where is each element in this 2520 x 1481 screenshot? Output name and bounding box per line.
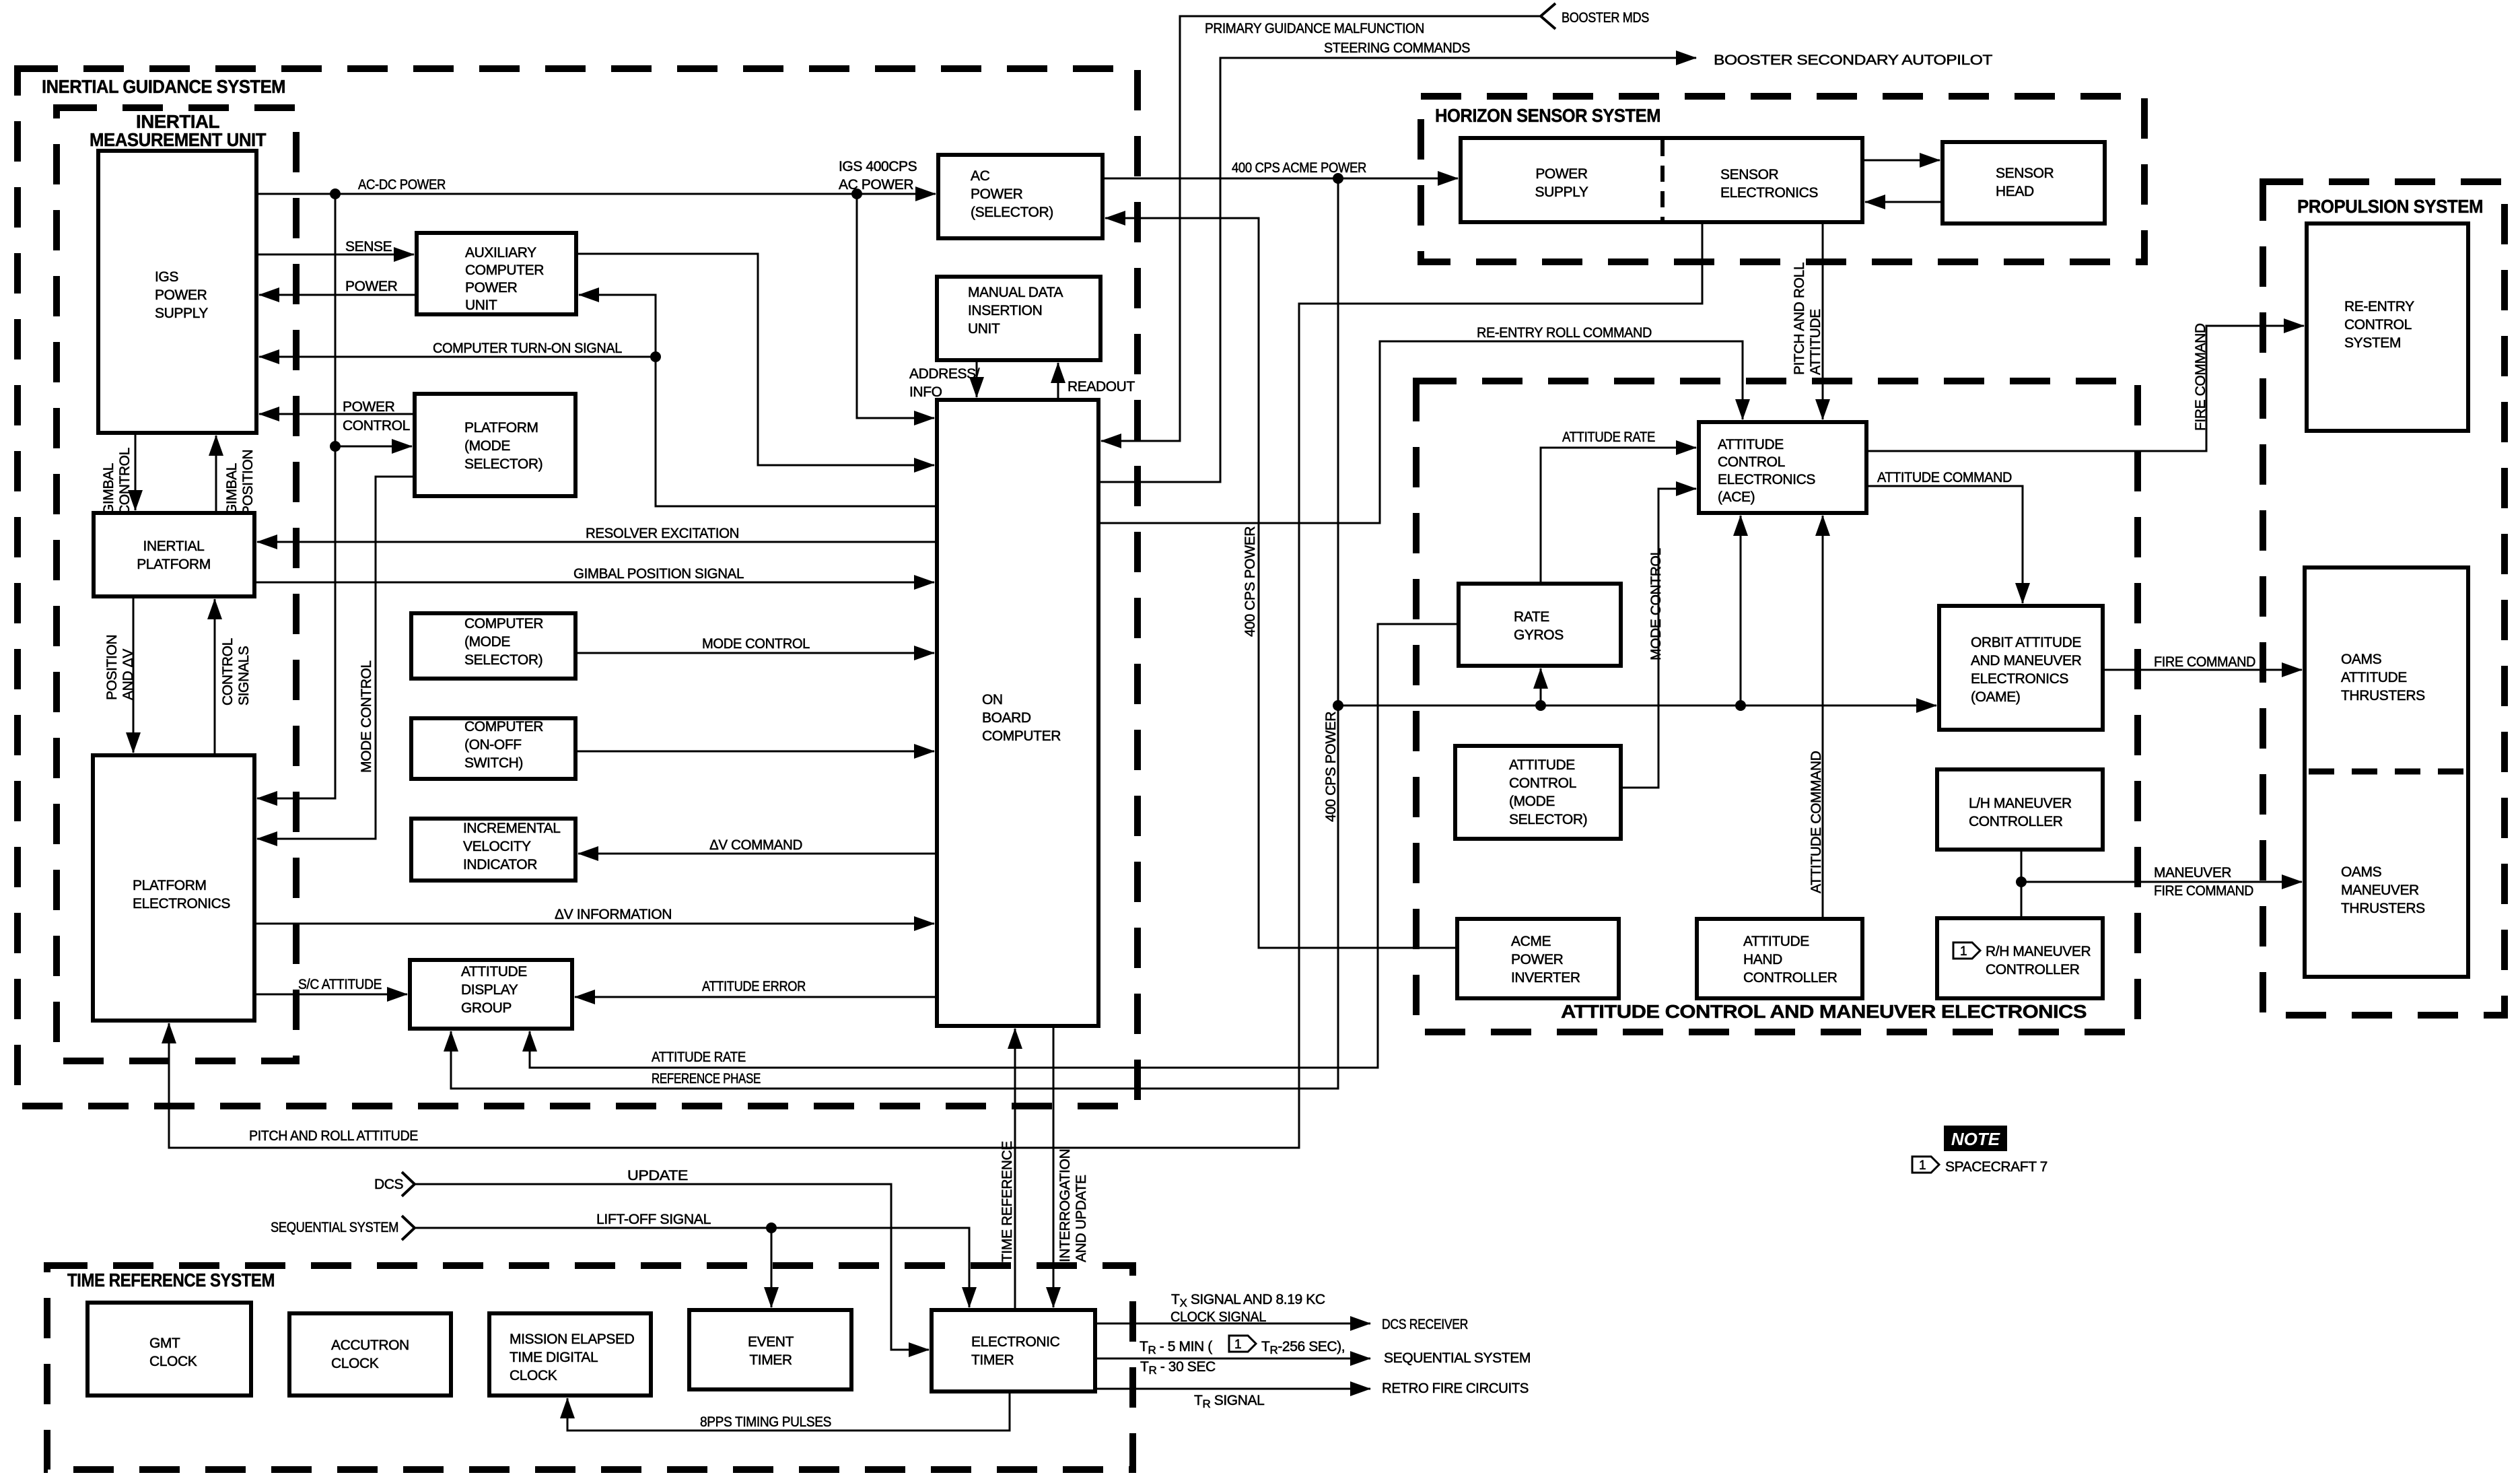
- svg-text:EVENT: EVENT: [748, 1334, 794, 1350]
- svg-text:DCS RECEIVER: DCS RECEIVER: [1382, 1317, 1468, 1332]
- wire: READOUT (OBC up to MDIU): [1057, 363, 1059, 400]
- svg-text:PITCH AND ROLL: PITCH AND ROLL: [1792, 263, 1807, 375]
- wire: MANEUVER FIRE COMMAND (to OAMS MANEUVER THRUSTERS): [2021, 881, 2302, 883]
- svg-text:SIGNALS: SIGNALS: [236, 646, 252, 705]
- wire: ATTITUDE ERROR (OBC to ADG): [575, 996, 937, 998]
- wire: bus up into ACE: [1740, 516, 1742, 705]
- svg-text:ACME: ACME: [1511, 934, 1551, 949]
- svg-text:ELECTRONICS: ELECTRONICS: [1720, 185, 1818, 201]
- svg-text:1: 1: [1919, 1159, 1926, 1173]
- wire: ATTITUDE COMMAND (ACE to OAME): [1866, 486, 2023, 603]
- box: ATTITUDE CONTROL ELECTRONICS (ACE): [1699, 422, 1866, 513]
- svg-text:FIRE COMMAND: FIRE COMMAND: [2154, 654, 2255, 670]
- svg-text:PLATFORM: PLATFORM: [464, 420, 538, 436]
- wire: 8PPS TIMING PULSES (ET to MISSION ELAPSED TIME CLOCK): [567, 1391, 1010, 1431]
- box: COMPUTER (ON-OFF SWITCH): [411, 718, 575, 779]
- svg-text:SENSOR: SENSOR: [1996, 166, 2054, 181]
- svg-text:8PPS TIMING PULSES: 8PPS TIMING PULSES: [700, 1414, 831, 1430]
- box: ORBIT ATTITUDE AND MANEUVER ELECTRONICS (OAME): [1939, 606, 2103, 730]
- svg-text:SEQUENTIAL SYSTEM: SEQUENTIAL SYSTEM: [271, 1220, 398, 1235]
- box: IGS POWER SUPPLY: [98, 151, 256, 433]
- svg-text:ATTITUDE: ATTITUDE: [461, 964, 527, 979]
- svg-text:UNIT: UNIT: [968, 321, 1000, 337]
- box: R/H MANEUVER CONTROLLER: [1937, 918, 2103, 998]
- junction bus at ACE: [1735, 700, 1746, 711]
- svg-text:POWER: POWER: [155, 287, 207, 303]
- box: PLATFORM (MODE SELECTOR): [415, 394, 575, 496]
- svg-text:SWITCH): SWITCH): [464, 755, 523, 771]
- wire: PITCH AND ROLL ATTITUDE (SENSOR ELECTRONICS down to PLATFORM ELECTRONICS): [169, 222, 1702, 1148]
- svg-text:THRUSTERS: THRUSTERS: [2341, 688, 2425, 703]
- dashed container: HORIZON SENSOR SYSTEM: [1421, 96, 2144, 262]
- svg-text:INTERROGATION: INTERROGATION: [1057, 1149, 1073, 1262]
- dashed container: TIME REFERENCE SYSTEM: [47, 1266, 1133, 1470]
- svg-text:AC POWER: AC POWER: [839, 177, 913, 193]
- svg-text:ATTITUDE: ATTITUDE: [1808, 309, 1823, 375]
- note: NOTE box: [1944, 1126, 2007, 1151]
- box: RE-ENTRY CONTROL SYSTEM: [2307, 223, 2468, 431]
- box: ACCUTRON CLOCK: [289, 1313, 451, 1396]
- svg-text:CONTROL: CONTROL: [117, 448, 133, 515]
- svg-text:READOUT: READOUT: [1067, 379, 1135, 394]
- junction AC-DC branch: [330, 441, 341, 452]
- svg-text:POWER: POWER: [971, 186, 1023, 202]
- wire: RESOLVER EXCITATION (OBC to IP): [257, 541, 937, 543]
- svg-text:ATTITUDE RATE: ATTITUDE RATE: [652, 1049, 746, 1065]
- svg-text:AC-DC POWER: AC-DC POWER: [358, 177, 446, 193]
- svg-text:1: 1: [1234, 1338, 1241, 1352]
- wire: ADDRESS/INFO (MDIU down to OBC): [976, 360, 978, 397]
- svg-text:INVERTER: INVERTER: [1511, 970, 1580, 986]
- svg-text:ATTITUDE ERROR: ATTITUDE ERROR: [702, 979, 806, 994]
- svg-text:RESOLVER EXCITATION: RESOLVER EXCITATION: [586, 526, 739, 541]
- svg-text:ACCUTRON: ACCUTRON: [331, 1338, 409, 1353]
- svg-text:HORIZON SENSOR SYSTEM: HORIZON SENSOR SYSTEM: [1435, 105, 1660, 126]
- box: EVENT TIMER: [689, 1310, 851, 1389]
- svg-text:STEERING COMMANDS: STEERING COMMANDS: [1324, 40, 1470, 56]
- wire: AC-DC POWER (IGS PS to AC POWER SELECTOR): [256, 193, 936, 195]
- svg-text:THRUSTERS: THRUSTERS: [2341, 901, 2425, 916]
- box: GMT CLOCK: [87, 1303, 251, 1396]
- dashed container: INERTIAL GUIDANCE SYSTEM: [17, 69, 1137, 1106]
- box: L/H MANEUVER CONTROLLER: [1937, 769, 2103, 850]
- svg-text:MANEUVER: MANEUVER: [2341, 883, 2419, 898]
- wire: PRIMARY GUIDANCE MALFUNCTION (BOOSTER MDS to OBC): [1101, 16, 1541, 441]
- svg-text:POSITION: POSITION: [240, 450, 256, 515]
- svg-text:INDICATOR: INDICATOR: [463, 857, 537, 872]
- svg-text:SEQUENTIAL SYSTEM: SEQUENTIAL SYSTEM: [1384, 1350, 1531, 1366]
- svg-text:TIME REFERENCE SYSTEM: TIME REFERENCE SYSTEM: [67, 1270, 275, 1290]
- wire: SENSE (IGS PS to AUX): [256, 254, 414, 256]
- svg-text:GIMBAL: GIMBAL: [101, 463, 116, 515]
- svg-text:AND MANEUVER: AND MANEUVER: [1971, 653, 2082, 668]
- svg-text:BOOSTER MDS: BOOSTER MDS: [1562, 10, 1649, 26]
- wire: IGS 400CPS AC POWER drop to ON BOARD COMPUTER: [857, 194, 934, 418]
- svg-text:MANUAL DATA: MANUAL DATA: [968, 285, 1063, 300]
- svg-text:MANEUVER: MANEUVER: [2154, 865, 2231, 881]
- box: AC POWER (SELECTOR): [938, 155, 1102, 238]
- svg-text:BOARD: BOARD: [982, 710, 1031, 726]
- svg-text:CONTROL: CONTROL: [220, 638, 236, 705]
- svg-text:VELOCITY: VELOCITY: [463, 839, 531, 854]
- svg-text:ΔV COMMAND: ΔV COMMAND: [709, 837, 802, 853]
- svg-text:PLATFORM: PLATFORM: [137, 557, 211, 572]
- wire: TX SIGNAL to DCS RECEIVER: [1095, 1323, 1370, 1325]
- svg-text:FIRE COMMAND: FIRE COMMAND: [2154, 883, 2253, 899]
- svg-text:DCS: DCS: [374, 1177, 404, 1192]
- svg-text:POWER: POWER: [343, 399, 395, 415]
- svg-text:UPDATE: UPDATE: [627, 1168, 688, 1183]
- wire: L/H to R/H MANEUVER CONTROLLER: [2021, 850, 2023, 918]
- junction bus at rate gyros: [1535, 700, 1546, 711]
- svg-text:ATTITUDE: ATTITUDE: [1509, 757, 1575, 773]
- dashed container: ATTITUDE CONTROL AND MANEUVER ELECTRONICS: [1416, 381, 2138, 1032]
- box: AUXILIARY COMPUTER POWER UNIT: [417, 233, 576, 314]
- box: OAMS ATTITUDE THRUSTERS: [2305, 567, 2468, 977]
- svg-text:POSITION: POSITION: [104, 635, 120, 700]
- svg-text:COMPUTER: COMPUTER: [464, 719, 543, 734]
- wire: INTERROGATION AND UPDATE (OBC down to ELECTRONIC TIMER): [1053, 1026, 1055, 1307]
- svg-text:MODE CONTROL: MODE CONTROL: [359, 660, 374, 773]
- svg-text:SELECTOR): SELECTOR): [464, 652, 542, 668]
- wire: 400 CPS ACME POWER (AC POWER SELECTOR to HSS POWER SUPPLY): [1102, 178, 1458, 180]
- wire: COMPUTER ON-OFF SWITCH to OBC: [575, 751, 934, 753]
- svg-text:ELECTRONICS: ELECTRONICS: [1971, 671, 2068, 687]
- svg-text:MEASUREMENT UNIT: MEASUREMENT UNIT: [90, 129, 266, 150]
- svg-text:GYROS: GYROS: [1514, 627, 1564, 643]
- wire: FIRE COMMAND (OAME to OAMS ATTITUDE THRUSTERS): [2103, 669, 2302, 671]
- svg-text:GIMBAL: GIMBAL: [224, 463, 240, 515]
- box: COMPUTER (MODE SELECTOR): [411, 613, 575, 679]
- wire: 400 CPS POWER return (ACME POWER INVERTER to AC POWER SELECTOR): [1105, 218, 1457, 948]
- wire: LIFT-OFF SIGNAL (SEQUENTIAL SYSTEM to ELECTRONIC TIMER): [415, 1228, 969, 1307]
- junction maneuver fire command: [2016, 876, 2027, 887]
- wire: DELTA-V INFORMATION (PE to OBC): [254, 923, 934, 925]
- svg-text:ATTITUDE: ATTITUDE: [1718, 437, 1784, 452]
- svg-text:CONTROLLER: CONTROLLER: [1743, 970, 1838, 986]
- svg-text:ELECTRONIC: ELECTRONIC: [971, 1334, 1060, 1350]
- wire: MODE CONTROL (COMPUTER MODE SELECTOR to OBC): [575, 652, 934, 654]
- svg-text:RE-ENTRY: RE-ENTRY: [2344, 299, 2414, 314]
- svg-text:400 CPS ACME POWER: 400 CPS ACME POWER: [1232, 160, 1366, 176]
- svg-text:SPACECRAFT 7: SPACECRAFT 7: [1945, 1159, 2048, 1175]
- wire: S/C ATTITUDE (PE to ADG): [254, 994, 407, 996]
- svg-text:CONTROL: CONTROL: [1718, 454, 1785, 470]
- svg-text:RE-ENTRY ROLL COMMAND: RE-ENTRY ROLL COMMAND: [1477, 325, 1652, 341]
- box: OAMS MANEUVER THRUSTERS: [2341, 864, 2425, 916]
- svg-text:ATTITUDE CONTROL AND MANEUVER: ATTITUDE CONTROL AND MANEUVER ELECTRONIC…: [1561, 1001, 2087, 1022]
- wire: bus up into RATE GYROS: [1540, 668, 1542, 705]
- svg-text:OAMS: OAMS: [2341, 652, 2382, 667]
- svg-text:AND UPDATE: AND UPDATE: [1074, 1175, 1089, 1262]
- wire: COMPUTER TURN-ON SIGNAL from OBC: [579, 295, 937, 506]
- svg-text:SELECTOR): SELECTOR): [1509, 812, 1587, 827]
- wire: CONTROL SIGNALS (PE up to IP): [214, 599, 216, 755]
- svg-text:INCREMENTAL: INCREMENTAL: [463, 821, 561, 836]
- svg-text:CLOCK: CLOCK: [510, 1368, 557, 1383]
- svg-text:(ON-OFF: (ON-OFF: [464, 737, 522, 753]
- svg-text:COMPUTER: COMPUTER: [982, 728, 1061, 744]
- svg-text:ATTITUDE COMMAND: ATTITUDE COMMAND: [1877, 470, 2012, 485]
- svg-text:BOOSTER SECONDARY AUTOPILOT: BOOSTER SECONDARY AUTOPILOT: [1714, 53, 1993, 68]
- svg-text:PITCH AND ROLL ATTITUDE: PITCH AND ROLL ATTITUDE: [249, 1128, 418, 1144]
- svg-text:R/H MANEUVER: R/H MANEUVER: [1986, 944, 2091, 959]
- svg-text:UNIT: UNIT: [465, 298, 497, 313]
- svg-text:GMT: GMT: [149, 1336, 180, 1351]
- wire: STEERING COMMANDS (OBC to BOOSTER SECONDARY AUTOPILOT): [1098, 58, 1696, 482]
- junction bus at source: [1333, 700, 1343, 711]
- box: ATTITUDE CONTROL (MODE SELECTOR): [1455, 746, 1621, 839]
- wire: SENSOR HEAD to HSS: [1865, 201, 1943, 203]
- wire: TR-5MIN/TR-30SEC to SEQUENTIAL SYSTEM: [1095, 1358, 1370, 1360]
- wire: DCS UPDATE (to ELECTRONIC TIMER): [415, 1184, 929, 1350]
- svg-text:ELECTRONICS: ELECTRONICS: [1718, 472, 1815, 487]
- svg-text:400 CPS POWER: 400 CPS POWER: [1323, 712, 1339, 822]
- svg-text:(SELECTOR): (SELECTOR): [971, 205, 1053, 220]
- wire: DELTA-V COMMAND (OBC to IVI): [578, 853, 937, 855]
- svg-text:OAMS: OAMS: [2341, 864, 2382, 880]
- svg-text:FIRE COMMAND: FIRE COMMAND: [2193, 323, 2208, 431]
- box: ATTITUDE DISPLAY GROUP: [410, 960, 572, 1029]
- junction 400cps acme power: [1333, 173, 1343, 184]
- junction on AC-DC POWER at x498: [330, 188, 341, 199]
- svg-text:(OAME): (OAME): [1971, 689, 2020, 705]
- box: POWER SUPPLY / SENSOR ELECTRONICS: [1461, 138, 1862, 222]
- svg-text:TIMER: TIMER: [971, 1352, 1014, 1368]
- wire: GIMBAL CONTROL (IGS PS down to INERTIAL PLATFORM): [135, 433, 137, 510]
- wire: ATTITUDE RATE (RATE GYROS down to ADG): [530, 624, 1459, 1068]
- svg-text:GIMBAL POSITION SIGNAL: GIMBAL POSITION SIGNAL: [573, 566, 744, 582]
- svg-text:PRIMARY GUIDANCE MALFUNCTION: PRIMARY GUIDANCE MALFUNCTION: [1205, 21, 1424, 36]
- svg-text:RATE: RATE: [1514, 609, 1549, 625]
- svg-text:LIFT-OFF SIGNAL: LIFT-OFF SIGNAL: [596, 1212, 711, 1227]
- svg-text:ON: ON: [982, 692, 1003, 708]
- svg-text:SUPPLY: SUPPLY: [155, 306, 208, 321]
- box: MANUAL DATA INSERTION UNIT: [937, 277, 1100, 360]
- svg-text:CONTROL: CONTROL: [1509, 776, 1576, 791]
- svg-text:SUPPLY: SUPPLY: [1535, 184, 1588, 200]
- svg-text:AND ΔV: AND ΔV: [120, 649, 136, 700]
- svg-text:L/H MANEUVER: L/H MANEUVER: [1969, 796, 2072, 811]
- box: ELECTRONIC TIMER: [932, 1310, 1095, 1391]
- svg-text:POWER: POWER: [465, 280, 518, 296]
- wire: HSS to SENSOR HEAD: [1862, 160, 1940, 162]
- chevron: SEQUENTIAL SYSTEM connector: [402, 1216, 415, 1240]
- svg-text:INERTIAL GUIDANCE SYSTEM: INERTIAL GUIDANCE SYSTEM: [42, 76, 285, 97]
- svg-text:ATTITUDE COMMAND: ATTITUDE COMMAND: [1809, 751, 1824, 893]
- svg-text:POWER: POWER: [345, 279, 398, 294]
- dashed container: PROPULSION SYSTEM: [2263, 182, 2505, 1015]
- svg-text:ATTITUDE: ATTITUDE: [1743, 934, 1809, 949]
- svg-text:GROUP: GROUP: [461, 1000, 512, 1016]
- svg-text:ELECTRONICS: ELECTRONICS: [133, 896, 230, 911]
- svg-text:COMPUTER: COMPUTER: [465, 263, 544, 278]
- box: MISSION ELAPSED TIME DIGITAL CLOCK: [489, 1313, 651, 1396]
- wire: AC-DC branch to PLATFORM (MODE SELECTOR): [335, 446, 412, 448]
- svg-text:(MODE: (MODE: [464, 634, 510, 650]
- wire: RE-ENTRY ROLL COMMAND (OBC to ACE): [1098, 341, 1743, 523]
- wire: ATTITUDE RATE (RATE GYROS to ACE): [1541, 448, 1696, 584]
- svg-text:TX SIGNAL AND 8.19 KC: TX SIGNAL AND 8.19 KC: [1171, 1292, 1325, 1309]
- svg-text:400 CPS POWER: 400 CPS POWER: [1242, 526, 1258, 637]
- svg-text:TIMER: TIMER: [749, 1352, 792, 1368]
- wire: LIFT-OFF branch to EVENT TIMER: [771, 1228, 773, 1307]
- svg-text:DISPLAY: DISPLAY: [461, 982, 518, 998]
- svg-text:TIME DIGITAL: TIME DIGITAL: [510, 1350, 598, 1365]
- box: PLATFORM ELECTRONICS: [93, 755, 254, 1021]
- svg-text:PROPULSION SYSTEM: PROPULSION SYSTEM: [2297, 196, 2483, 217]
- svg-text:PLATFORM: PLATFORM: [133, 878, 207, 893]
- svg-text:RETRO FIRE CIRCUITS: RETRO FIRE CIRCUITS: [1382, 1381, 1529, 1396]
- junction lift-off to event timer: [766, 1222, 777, 1233]
- wire: COMPUTER TURN-ON SIGNAL branch to IGS PS: [259, 356, 656, 358]
- wire: POSITION AND DELTA-V (IP down to PLATFORM ELECTRONICS): [133, 596, 135, 753]
- junction on turn-on signal: [650, 351, 661, 362]
- svg-text:TIME REFERENCE: TIME REFERENCE: [1000, 1141, 1015, 1262]
- svg-text:IGS: IGS: [155, 269, 178, 285]
- note flag 1: [1953, 942, 1980, 959]
- svg-text:POWER: POWER: [1511, 952, 1564, 967]
- wire: GIMBAL POSITION SIGNAL (IP to OBC): [254, 582, 934, 584]
- svg-text:INFO: INFO: [909, 384, 942, 400]
- wire: 400 CPS POWER bus to OAME: [1338, 705, 1936, 707]
- wire: AC-DC distribution drop to PLATFORM ELECTRONICS: [257, 194, 335, 798]
- svg-text:AUXILIARY: AUXILIARY: [465, 245, 536, 261]
- box: SENSOR HEAD: [1943, 142, 2105, 223]
- junction on AC-DC POWER at x1273 (IGS 400CPS tap): [851, 188, 862, 199]
- svg-text:SELECTOR): SELECTOR): [464, 456, 542, 472]
- svg-text:SENSE: SENSE: [345, 239, 392, 254]
- dashed container: INERTIAL MEASUREMENT UNIT: [57, 108, 296, 1061]
- svg-text:SENSOR: SENSOR: [1720, 167, 1779, 182]
- chevron: DCS connector: [402, 1172, 415, 1196]
- svg-text:INERTIAL: INERTIAL: [143, 539, 205, 554]
- wire: FIRE COMMAND (ACE to RE-ENTRY CONTROL SYSTEM): [1866, 326, 2304, 451]
- wire: AUX COMPUTER POWER UNIT to OBC: [576, 254, 934, 465]
- svg-text:MODE CONTROL: MODE CONTROL: [1648, 548, 1664, 660]
- svg-text:CLOCK SIGNAL: CLOCK SIGNAL: [1170, 1309, 1266, 1325]
- svg-text:REFERENCE PHASE: REFERENCE PHASE: [652, 1071, 761, 1087]
- svg-text:IGS 400CPS: IGS 400CPS: [839, 159, 917, 174]
- svg-text:POWER: POWER: [1535, 166, 1588, 182]
- wire: MODE CONTROL (ATTITUDE CONTROL MODE SELECTOR to ACE): [1621, 489, 1696, 788]
- svg-text:ADDRESS/: ADDRESS/: [909, 366, 980, 382]
- svg-text:S/C ATTITUDE: S/C ATTITUDE: [298, 977, 382, 992]
- svg-text:HEAD: HEAD: [1996, 184, 2034, 199]
- box: ACME POWER INVERTER: [1457, 919, 1619, 998]
- wire: POWER (AUX to IGS PS): [259, 294, 417, 296]
- wire: GIMBAL POSITION (INERTIAL PLATFORM up to IGS PS): [215, 436, 217, 513]
- svg-text:HAND: HAND: [1743, 952, 1782, 967]
- svg-text:ΔV INFORMATION: ΔV INFORMATION: [555, 907, 672, 922]
- chevron: BOOSTER MDS connector: [1541, 3, 1555, 29]
- svg-text:INSERTION: INSERTION: [968, 303, 1042, 318]
- wire: TIME REFERENCE (ELECTRONIC TIMER up to OBC): [1014, 1029, 1016, 1310]
- svg-text:CONTROLLER: CONTROLLER: [1969, 814, 2063, 829]
- svg-text:AC: AC: [971, 168, 990, 184]
- svg-text:CLOCK: CLOCK: [331, 1356, 379, 1371]
- svg-text:ATTITUDE RATE: ATTITUDE RATE: [1562, 429, 1655, 445]
- svg-text:NOTE: NOTE: [1951, 1129, 2000, 1149]
- note: 1 SPACECRAFT 7: [1912, 1157, 1939, 1173]
- wire: ATTITUDE COMMAND (ATTITUDE HAND CONTROLLER to ACE): [1822, 516, 1824, 919]
- svg-text:CONTROL: CONTROL: [2344, 317, 2412, 333]
- svg-text:ORBIT ATTITUDE: ORBIT ATTITUDE: [1971, 635, 2081, 650]
- svg-text:(MODE: (MODE: [1509, 794, 1555, 809]
- svg-text:MISSION ELAPSED: MISSION ELAPSED: [510, 1332, 635, 1347]
- box: ON BOARD COMPUTER: [937, 400, 1098, 1026]
- svg-text:(ACE): (ACE): [1718, 489, 1755, 505]
- svg-text:CONTROL: CONTROL: [343, 418, 410, 434]
- box: INCREMENTAL VELOCITY INDICATOR: [411, 819, 575, 881]
- wire: PITCH AND ROLL ATTITUDE (SENSOR ELECTRONICS to ACE): [1822, 222, 1824, 419]
- wire: TR SIGNAL to RETRO FIRE CIRCUITS: [1095, 1388, 1370, 1390]
- svg-text:CLOCK: CLOCK: [149, 1354, 197, 1369]
- svg-text:CONTROLLER: CONTROLLER: [1986, 962, 2080, 977]
- wire: REFERENCE PHASE (400cps vertical down to ADG): [451, 178, 1338, 1089]
- svg-text:ATTITUDE: ATTITUDE: [2341, 670, 2407, 685]
- box: RATE GYROS: [1459, 584, 1621, 666]
- wire: POWER CONTROL (PLATFORM MODE SELECTOR to IGS PS): [259, 413, 415, 415]
- svg-text:MODE CONTROL: MODE CONTROL: [702, 636, 810, 652]
- box: ATTITUDE HAND CONTROLLER: [1697, 919, 1862, 998]
- svg-text:(MODE: (MODE: [464, 438, 510, 454]
- svg-text:COMPUTER TURN-ON SIGNAL: COMPUTER TURN-ON SIGNAL: [433, 341, 622, 356]
- svg-text:COMPUTER: COMPUTER: [464, 616, 543, 631]
- box: INERTIAL PLATFORM: [94, 513, 254, 596]
- wire: MODE CONTROL (PLATFORM MODE SELECTOR to PLATFORM ELECTRONICS): [257, 477, 415, 839]
- svg-text:SYSTEM: SYSTEM: [2344, 335, 2401, 351]
- svg-text:1: 1: [1960, 944, 1967, 959]
